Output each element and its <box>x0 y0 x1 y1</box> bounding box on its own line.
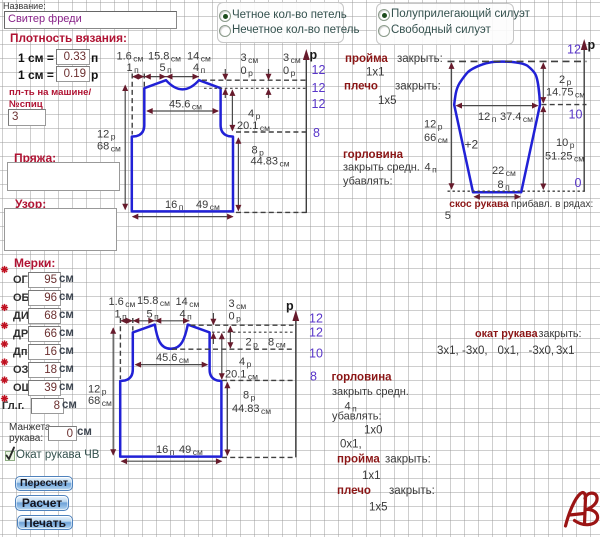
svg-text:3х1: 3х1 <box>556 345 575 357</box>
measurement row Гл.г. <box>2 400 24 412</box>
svg-text:16п: 16п <box>165 199 184 212</box>
sleeve cap arrow 2р/14.75см <box>540 62 546 103</box>
chest width arrow 45.6см (bottom) <box>135 362 209 368</box>
button Расчет <box>15 495 69 511</box>
measurement row ОШ <box>13 382 33 394</box>
svg-text:0р: 0р <box>283 65 296 78</box>
svg-text:скос рукава: скос рукава <box>449 199 509 210</box>
svg-text:22см: 22см <box>492 165 516 178</box>
bottom width arrow 16п/49см (bottom) <box>121 458 223 464</box>
svg-text:5п: 5п <box>160 62 173 75</box>
svg-text:8: 8 <box>313 126 320 140</box>
svg-text:14.75см: 14.75см <box>546 87 585 100</box>
svg-text:4п: 4п <box>193 62 206 75</box>
svg-text:14см: 14см <box>176 296 200 309</box>
svg-text:2р: 2р <box>559 74 572 87</box>
measurement row ДИ <box>13 310 29 322</box>
svg-text:-3х0,: -3х0, <box>529 345 555 357</box>
checkbox tick <box>7 448 15 460</box>
group box: silhouette <box>376 3 514 45</box>
svg-text:12р: 12р <box>424 119 443 132</box>
button Печать <box>17 515 73 531</box>
svg-text:12: 12 <box>567 43 581 57</box>
svg-text:5п: 5п <box>147 309 160 322</box>
svg-text:закрыть средн.: закрыть средн. <box>332 386 409 398</box>
svg-text:прибавл. в рядах:: прибавл. в рядах: <box>511 198 593 210</box>
3cm marker arrow (bottom schematic) <box>210 313 216 344</box>
schematic: back piece outline (top) <box>132 80 233 211</box>
construction dashed verticals (bottom schematic) <box>119 318 121 379</box>
svg-text:пройма: пройма <box>345 53 388 65</box>
svg-text:1х5: 1х5 <box>369 502 388 514</box>
3cm marker arrows (top schematic) <box>222 69 228 98</box>
svg-text:3см: 3см <box>283 52 301 65</box>
textarea Узор <box>4 208 117 251</box>
svg-text:1х5: 1х5 <box>378 95 397 107</box>
measurement row Дп <box>13 346 27 358</box>
svg-text:1п: 1п <box>127 62 140 75</box>
armhole depth arrow 4р (bottom) <box>219 333 225 380</box>
svg-text:8см: 8см <box>268 337 286 350</box>
svg-text:0р: 0р <box>229 311 242 324</box>
schematic: sleeve outline <box>454 62 540 193</box>
neck depth arrow 2р/8см (bottom) <box>227 326 233 349</box>
svg-text:горловина: горловина <box>332 372 393 384</box>
svg-text:0р: 0р <box>241 65 254 78</box>
svg-text:12р: 12р <box>97 129 116 142</box>
chest width arrow 45.6cm (top) <box>146 108 219 114</box>
svg-text:20.1см: 20.1см <box>237 120 270 133</box>
svg-text:49см: 49см <box>179 444 203 457</box>
svg-text:убавлять:: убавлять: <box>343 176 393 188</box>
svg-text:15.8см: 15.8см <box>137 295 170 308</box>
dashed level lines (sleeve) <box>448 60 587 62</box>
sleeve length arrow 12р/66см <box>449 62 455 189</box>
svg-text:45.6см: 45.6см <box>156 352 189 365</box>
input: pattern name <box>4 11 177 29</box>
radio: полуприлегающий (selected) <box>378 9 390 21</box>
svg-text:45.6см: 45.6см <box>169 99 202 112</box>
svg-text:пройма: пройма <box>337 454 380 466</box>
input: cuff <box>48 426 77 441</box>
svg-text:49см: 49см <box>196 199 220 212</box>
title Плотность вязания <box>10 31 127 45</box>
checkbox Окат рукава ЧВ <box>5 451 15 461</box>
armhole depth arrow 4р (top) <box>229 89 235 131</box>
svg-text:10: 10 <box>569 108 583 122</box>
svg-text:p: p <box>588 38 596 52</box>
svg-text:12: 12 <box>309 312 323 326</box>
measurement row ОЗ <box>13 364 28 376</box>
measurement row ОГ <box>13 274 28 286</box>
svg-text:12: 12 <box>309 326 323 340</box>
svg-text:1х1: 1х1 <box>362 470 381 482</box>
schematic: front piece outline (bottom) <box>120 325 221 457</box>
svg-text:0х1,: 0х1, <box>498 345 520 357</box>
svg-text:68см: 68см <box>97 141 121 154</box>
svg-text:-3х0,: -3х0, <box>462 345 488 357</box>
svg-text:4р: 4р <box>248 108 261 121</box>
total length arrow 12р/68см (top) <box>122 85 128 211</box>
svg-text:1.6см: 1.6см <box>109 296 136 309</box>
sleeve underarm arrow 10р/51.25см <box>540 106 546 190</box>
row axis p (sleeve) <box>581 38 596 191</box>
sleeve top width arrow 12п/37.4см <box>456 103 539 109</box>
construction dashed verticals (top schematic) <box>131 74 133 135</box>
gauge row 2 <box>18 68 54 82</box>
svg-text:8: 8 <box>310 370 317 384</box>
svg-text:44.83см: 44.83см <box>232 403 271 416</box>
svg-text:8р: 8р <box>243 390 256 403</box>
svg-text:66см: 66см <box>424 132 448 145</box>
row axis p (top schematic) <box>303 48 318 213</box>
svg-text:горловина: горловина <box>343 149 404 161</box>
svg-text:плечо: плечо <box>344 81 378 93</box>
svg-text:p: p <box>310 48 318 62</box>
label Манжета рукава <box>9 422 50 444</box>
button Пересчет <box>15 476 73 491</box>
group box: stitch count parity <box>217 2 344 43</box>
svg-text:2р: 2р <box>246 337 259 350</box>
svg-text:10р: 10р <box>556 137 575 150</box>
svg-text:закрыть:: закрыть: <box>389 485 435 497</box>
top dimension line 1.6/15.8/14 (bottom schematic) <box>120 318 189 324</box>
label Название <box>3 1 46 11</box>
svg-text:плечо: плечо <box>337 485 371 497</box>
measurement row ОБ <box>13 292 29 304</box>
side length arrow 8р (top) <box>235 137 241 211</box>
svg-text:1х1: 1х1 <box>366 67 385 79</box>
svg-text:3см: 3см <box>241 52 259 65</box>
svg-text:20.1см: 20.1см <box>225 369 258 382</box>
svg-text:3х1,: 3х1, <box>437 345 459 357</box>
svg-text:4р: 4р <box>239 356 252 369</box>
svg-text:5: 5 <box>445 210 451 222</box>
dashed level lines (bottom schematic) <box>191 324 294 326</box>
label пл-ть на машине <box>9 87 91 111</box>
svg-text:1х0: 1х0 <box>364 425 383 437</box>
radio: свободный <box>378 25 390 37</box>
input: needle no <box>8 109 46 126</box>
svg-text:закрыть:: закрыть: <box>395 81 441 93</box>
svg-text:3см: 3см <box>229 298 247 311</box>
svg-text:8п: 8п <box>498 179 511 192</box>
svg-text:0: 0 <box>575 176 582 190</box>
dashed level lines (top schematic) <box>202 79 306 81</box>
svg-text:12: 12 <box>312 97 326 111</box>
svg-text:убавлять:: убавлять: <box>332 411 382 423</box>
logo AB monogram <box>566 493 598 526</box>
radio: нечетное <box>219 25 231 37</box>
svg-text:закрыть средн.: закрыть средн. <box>343 162 420 174</box>
title Мерки <box>14 256 55 270</box>
measurement row ДР <box>13 328 28 340</box>
svg-text:44.83см: 44.83см <box>251 156 290 169</box>
svg-text:12: 12 <box>312 63 326 77</box>
svg-text:68см: 68см <box>88 395 112 408</box>
svg-text:12п: 12п <box>478 111 497 124</box>
svg-text:37.4см: 37.4см <box>500 111 533 124</box>
svg-text:12: 12 <box>312 81 326 95</box>
svg-text:закрыть:: закрыть: <box>539 328 582 340</box>
side length arrow 8р (bottom) <box>224 382 230 456</box>
bottom width arrow 16п/49см (top) <box>132 214 234 220</box>
sleeve cuff width arrow 22см/8п <box>473 194 521 200</box>
label Пряжа <box>14 151 56 165</box>
svg-text:закрыть:: закрыть: <box>397 53 443 65</box>
radio: четное (selected) <box>219 10 231 22</box>
svg-text:16п: 16п <box>156 444 175 457</box>
textarea Пряжа <box>7 162 120 191</box>
svg-text:51.25см: 51.25см <box>545 151 584 164</box>
svg-text:0х1,: 0х1, <box>340 439 362 451</box>
label Узор <box>15 197 46 211</box>
svg-text:10: 10 <box>309 347 323 361</box>
top dimension line 1.6/15.8/14 (top schematic) <box>132 74 199 80</box>
svg-text:закрыть:: закрыть: <box>385 454 431 466</box>
row axis p (bottom schematic) <box>286 299 299 457</box>
svg-text:+2: +2 <box>465 138 479 152</box>
svg-text:p: p <box>286 299 294 313</box>
svg-text:окат рукава: окат рукава <box>475 328 539 340</box>
svg-text:4п: 4п <box>425 162 438 175</box>
gauge row 1 <box>18 51 54 65</box>
total length arrow 12р/68см (bottom) <box>110 327 116 456</box>
required-field asterisks <box>1 266 8 273</box>
